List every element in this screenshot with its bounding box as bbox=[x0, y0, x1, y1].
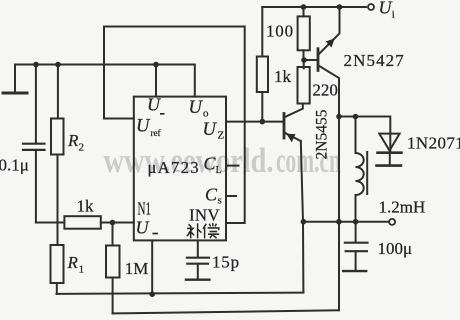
svg-text:L: L bbox=[216, 165, 222, 176]
svg-text:0.1μ: 0.1μ bbox=[0, 156, 29, 175]
svg-text:2: 2 bbox=[79, 142, 85, 154]
svg-text:R: R bbox=[67, 253, 79, 272]
svg-text:N1: N1 bbox=[138, 199, 152, 219]
svg-text:1M: 1M bbox=[125, 259, 149, 278]
svg-text:U: U bbox=[379, 0, 393, 18]
svg-text:1: 1 bbox=[79, 264, 85, 276]
svg-text:U: U bbox=[147, 95, 161, 115]
svg-text:s: s bbox=[218, 195, 222, 207]
svg-text:1k: 1k bbox=[274, 67, 292, 86]
svg-text:C: C bbox=[205, 185, 218, 205]
svg-text:220: 220 bbox=[312, 81, 338, 100]
svg-text:100: 100 bbox=[266, 22, 294, 41]
svg-text:1.2mH: 1.2mH bbox=[379, 198, 426, 217]
svg-text:15p: 15p bbox=[212, 253, 240, 272]
svg-text:com.cn: com.cn bbox=[276, 141, 341, 180]
svg-text:U: U bbox=[136, 218, 150, 238]
svg-text:100μ: 100μ bbox=[378, 239, 413, 258]
svg-text:i: i bbox=[392, 9, 395, 21]
svg-text:U: U bbox=[189, 98, 204, 118]
svg-text:o: o bbox=[203, 108, 209, 120]
svg-text:μA723: μA723 bbox=[148, 158, 201, 177]
svg-text:2N5427: 2N5427 bbox=[344, 51, 405, 70]
svg-text:ref: ref bbox=[151, 128, 161, 138]
svg-text:U: U bbox=[203, 120, 218, 140]
svg-text:U: U bbox=[136, 117, 151, 137]
svg-text:INV: INV bbox=[189, 206, 220, 225]
svg-text:R: R bbox=[67, 131, 79, 150]
svg-text:Z: Z bbox=[218, 130, 225, 142]
svg-text:2N5455: 2N5455 bbox=[314, 109, 331, 159]
svg-text:1N2071: 1N2071 bbox=[407, 134, 460, 153]
svg-text:1k: 1k bbox=[77, 197, 95, 216]
